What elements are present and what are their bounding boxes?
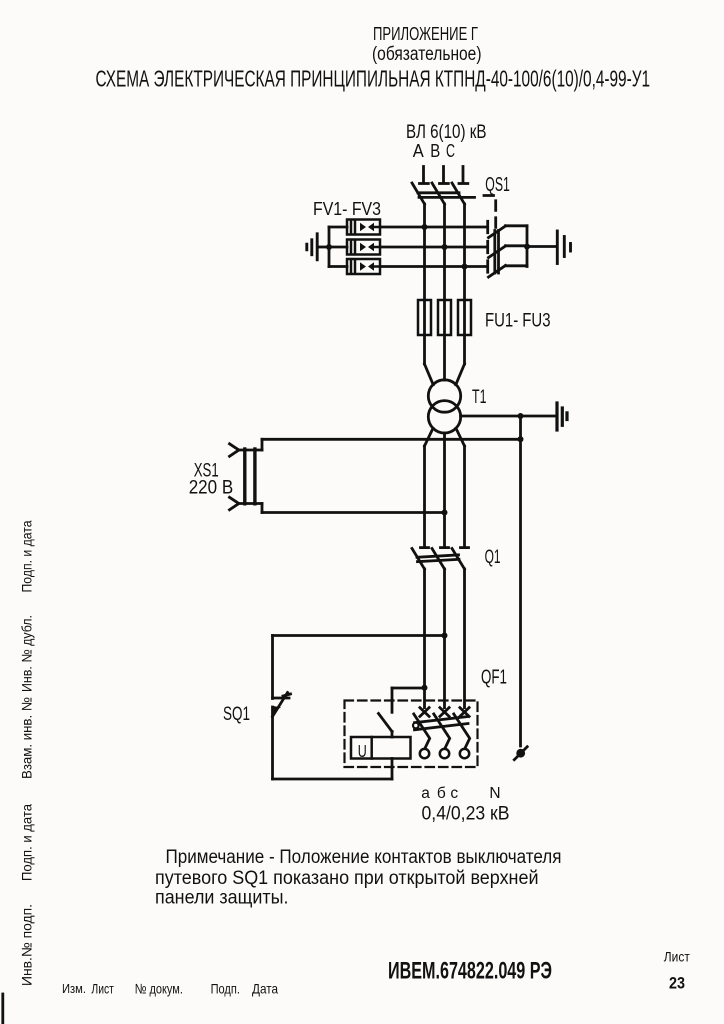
node row3-phaseC (462, 264, 468, 270)
arrester FV2 (347, 240, 380, 255)
terminal bar phase A (420, 182, 429, 185)
fuse FU3 (458, 300, 471, 335)
disconnector blade pole B (432, 183, 445, 204)
svg-text:Инв. № дубл.: Инв. № дубл. (19, 615, 35, 692)
svg-text:U: U (358, 741, 367, 761)
QS1 earthing stub row3 (506, 264, 528, 267)
svg-text:Примечание - Положение контак: Примечание - Положение контактов выключа… (166, 847, 562, 868)
svg-text:С: С (446, 141, 455, 161)
node XS1 lower junction phase b (442, 510, 448, 516)
disconnector blade pole A (412, 183, 425, 204)
svg-text:путевого SQ1 показано при откр: путевого SQ1 показано при открытой верхн… (155, 868, 539, 889)
QS1 earthing switch contact tick row1 (486, 221, 489, 232)
arrester FV3 (347, 259, 380, 274)
svg-text:QS1: QS1 (485, 174, 510, 196)
QS1 earthing switch contact tick row3 (486, 261, 489, 272)
aux contact wire from phase a (392, 687, 425, 690)
Q1 blade pole c (452, 549, 465, 570)
XS1 socket bars (245, 449, 255, 504)
terminal stub phase B (442, 167, 445, 183)
QF1 pole c cross (460, 708, 469, 717)
QF1 linkage double line (415, 717, 469, 723)
Q1 contact bar pole a (421, 546, 429, 549)
ground T1 neutral (557, 403, 567, 430)
wire phase B vertical upper (443, 204, 446, 300)
svg-text:23: 23 (669, 974, 685, 993)
QS1 earthing blade row2 (489, 246, 506, 258)
transformer T1 primary winding (428, 380, 460, 412)
ground left symbol (307, 234, 317, 260)
wire phase c Q1 to QF1 (463, 569, 466, 708)
SQ1 bottom wire (273, 778, 393, 781)
SQ1 blade tick (283, 694, 291, 696)
svg-text:Подп. и дата: Подп. и дата (19, 804, 35, 881)
svg-text:Подп.: Подп. (211, 981, 240, 997)
svg-text:FV1- FV3: FV1- FV3 (313, 198, 381, 219)
Q1 contact bar pole c (461, 546, 469, 549)
N termination slash (514, 747, 527, 760)
SQ1 fixed contact foot (273, 697, 290, 700)
fuse FU2 (438, 300, 451, 335)
terminal bar phase B (440, 182, 449, 185)
node left ground junction (326, 244, 332, 250)
disconnector blade pole C (452, 183, 465, 204)
svg-text:панели защиты.: панели защиты. (155, 888, 289, 909)
svg-text:(обязательное): (обязательное) (372, 44, 482, 65)
node row2-phaseB (442, 244, 448, 250)
wire to right ground (527, 245, 556, 248)
svg-text:Лист: Лист (664, 949, 691, 965)
svg-text:SQ1: SQ1 (223, 704, 250, 725)
svg-text:Подп. и дата: Подп. и дата (19, 520, 35, 592)
wire phase b Q1 to QF1 (443, 569, 446, 708)
Q1 blade pole a (412, 549, 425, 570)
svg-text:а: а (421, 785, 430, 802)
svg-text:Дата: Дата (252, 981, 278, 997)
svg-text:FU1- FU3: FU1- FU3 (485, 310, 551, 332)
QS1 earthing stub row1 (506, 224, 528, 227)
wire phase B to transformer (443, 300, 446, 380)
SQ1 pivot triangle (271, 706, 281, 713)
disconnector linkage lower line (419, 196, 475, 199)
QS1 earthing blade row1 (489, 226, 506, 238)
wire T1 secondary phase a (425, 428, 434, 446)
SQ1 blade (273, 693, 288, 717)
wire up to U box bottom (391, 759, 394, 780)
wire phase A vertical upper (423, 204, 426, 300)
QF1 blade pole c (454, 714, 470, 749)
Q1 linkage double line (417, 555, 459, 557)
arrester FV1 (347, 220, 380, 235)
QS1 dashed mechanical link (484, 196, 496, 232)
N termination dot (516, 749, 525, 758)
node row1-phaseA (422, 224, 428, 230)
svg-text:Лист: Лист (91, 981, 114, 997)
SQ1 wire left vertical lower (271, 707, 274, 779)
XS1 socket prong lower (230, 497, 239, 503)
svg-text:А: А (413, 141, 424, 161)
svg-text:220 В: 220 В (189, 477, 234, 499)
svg-text:ВЛ 6(10) кВ: ВЛ 6(10) кВ (406, 121, 487, 143)
bus row 2 wire (329, 246, 347, 249)
XS1 socket prong upper (230, 444, 239, 450)
wire T1 secondary phase b (443, 433, 446, 546)
svg-text:№ докум.: № докум. (135, 981, 183, 997)
svg-text:СХЕМА ЭЛЕКТРИЧЕСКАЯ ПРИНЦИПИЛЬ: СХЕМА ЭЛЕКТРИЧЕСКАЯ ПРИНЦИПИЛЬНАЯ КТПНД-… (96, 66, 651, 92)
left ground lead wire (318, 246, 330, 249)
svg-text:ИВЕМ.674822.049 РЭ: ИВЕМ.674822.049 РЭ (388, 958, 552, 985)
disconnector linkage upper line (418, 191, 459, 194)
QF1 blade pole a (414, 714, 430, 749)
QF1 pole a cross (420, 708, 429, 717)
T1 neutral wire to ground (461, 415, 556, 418)
svg-text:ПРИЛОЖЕНИЕ Г: ПРИЛОЖЕНИЕ Г (373, 23, 478, 44)
terminal stub phase A (422, 167, 425, 183)
svg-text:В: В (430, 141, 440, 161)
QF1 dashed enclosure (345, 701, 478, 768)
node T1 neutral junction (518, 413, 524, 419)
svg-text:0,4/0,23 кВ: 0,4/0,23 кВ (422, 803, 510, 825)
QF1 pole b cross (440, 708, 449, 717)
undervoltage release U box (351, 737, 411, 759)
QF1 blade pole b (434, 714, 450, 749)
svg-text:T1: T1 (472, 386, 487, 408)
bus row 1 wire (329, 226, 347, 229)
border mark bottom left (1, 994, 4, 1024)
aux contact lower wire (391, 732, 394, 738)
wire phase C to transformer (463, 300, 466, 364)
QS1 earthing bus (526, 226, 529, 267)
Q1 contact bar pole b (441, 546, 449, 549)
svg-text:N: N (489, 785, 500, 802)
wire phase a Q1 to QF1 (423, 569, 426, 708)
svg-text:с: с (450, 785, 458, 802)
node N top junction (518, 436, 524, 442)
QS1 earthing blade row3 (489, 266, 506, 278)
QS1 earthing stub row2 (506, 244, 528, 247)
SQ1 wire top horizontal (273, 634, 445, 637)
terminal bar phase C (459, 182, 468, 185)
svg-text:Q1: Q1 (485, 547, 501, 568)
Q1 blade pole b (432, 549, 445, 570)
terminal stub phase C (462, 167, 465, 183)
N neutral vertical wire (519, 416, 522, 746)
svg-text:Взам. инв. №: Взам. инв. № (19, 697, 35, 779)
QF1 terminal circle pole a (420, 749, 429, 758)
QF1 terminal circle pole c (460, 749, 469, 758)
wire phase C vertical upper (463, 204, 466, 300)
bus row 3 wire (329, 265, 347, 268)
svg-text:б: б (437, 785, 446, 802)
node aux tap on phase a (422, 685, 428, 691)
wire T1 secondary phase c (456, 428, 465, 446)
transformer T1 secondary winding (428, 401, 460, 433)
fuse FU1 (418, 300, 431, 335)
node SQ1 tap on phase b (442, 633, 448, 639)
QF1 linkage pivot circle (413, 723, 419, 729)
svg-text:Изм.: Изм. (62, 982, 86, 996)
QS1 linkage double vertical (493, 231, 496, 274)
QF1 terminal circle pole b (440, 749, 449, 758)
XS1 lower wire (239, 502, 263, 505)
node QS1 bus junction (524, 244, 530, 250)
aux contact blade (379, 714, 393, 732)
svg-text:QF1: QF1 (481, 667, 507, 689)
ground right of QS1 (557, 231, 570, 264)
QS1 earthing switch contact tick row2 (486, 241, 489, 252)
SQ1 wire left vertical upper (271, 636, 274, 699)
wire phase A to transformer (423, 300, 426, 364)
XS1 upper wire (239, 449, 263, 452)
svg-text:Инв.№ подп.: Инв.№ подп. (19, 904, 35, 986)
arrester left connector wire (328, 227, 331, 267)
